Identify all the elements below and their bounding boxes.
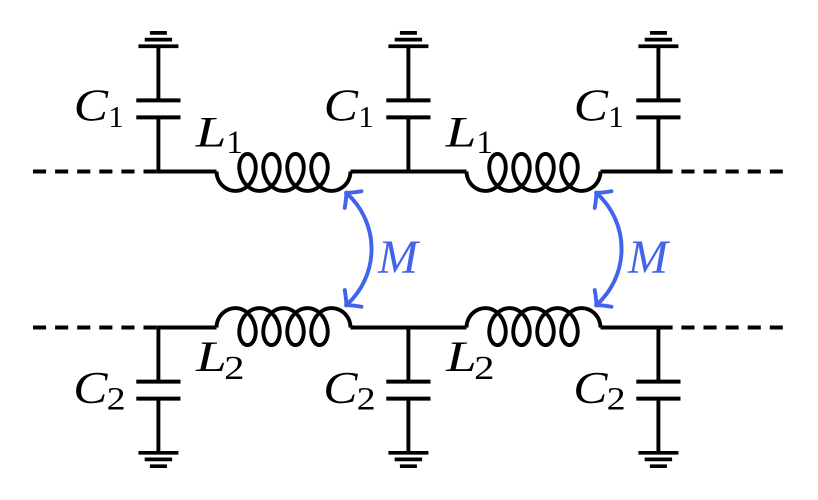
svg-text:L: L — [195, 333, 227, 381]
svg-text:2: 2 — [224, 350, 244, 387]
svg-text:1: 1 — [226, 125, 243, 161]
svg-text:L: L — [445, 108, 477, 156]
svg-text:2: 2 — [107, 380, 126, 417]
svg-text:C: C — [574, 81, 609, 130]
svg-text:2: 2 — [357, 380, 376, 417]
svg-text:C: C — [573, 364, 608, 413]
svg-text:1: 1 — [108, 99, 124, 134]
svg-text:C: C — [324, 81, 359, 130]
svg-text:L: L — [445, 333, 477, 381]
svg-text:M: M — [627, 231, 671, 284]
svg-text:L: L — [195, 108, 227, 156]
svg-text:C: C — [74, 81, 109, 130]
svg-text:1: 1 — [476, 125, 493, 161]
svg-text:C: C — [73, 364, 108, 413]
svg-text:1: 1 — [608, 99, 624, 134]
svg-text:M: M — [377, 231, 421, 284]
svg-text:1: 1 — [358, 99, 374, 134]
svg-text:2: 2 — [474, 350, 494, 387]
svg-text:C: C — [323, 364, 358, 413]
svg-text:2: 2 — [607, 380, 626, 417]
